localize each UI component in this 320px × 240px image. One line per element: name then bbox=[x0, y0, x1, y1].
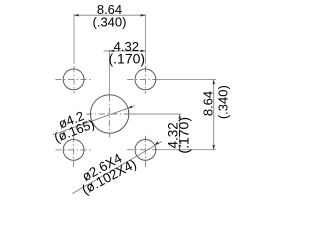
hole top-left circle bbox=[63, 69, 84, 90]
hole bottom-right circle bbox=[135, 140, 156, 161]
hole bottom-left circle bbox=[63, 140, 84, 161]
wire: top-left circle centerline horizontal bbox=[55, 78, 91, 80]
dimension line 4.32 right vertical bbox=[179, 114, 181, 150]
svg-text:(.340): (.340) bbox=[216, 85, 231, 119]
arrow 4.32 right bottom bbox=[178, 145, 181, 150]
svg-text:8.64: 8.64 bbox=[201, 91, 216, 116]
wire: bottom-right circle centerlines, horizontal extended to right dims bbox=[144, 136, 146, 170]
arrow leader big circle bbox=[128, 106, 133, 109]
wire: top-right circle centerline horizontal extended to right dim bbox=[127, 78, 157, 80]
wire: big circle centerline vertical (extension of 4.32 dim) bbox=[108, 50, 110, 95]
arrow 4.32 top left bbox=[109, 50, 114, 53]
svg-text:(.170): (.170) bbox=[176, 117, 192, 154]
hole top-right circle bbox=[135, 69, 156, 90]
arrow 8.64 right top bbox=[212, 79, 215, 84]
leader line for big circle dia bbox=[53, 106, 135, 135]
leader line for small holes dia bbox=[72, 141, 162, 193]
wire: bottom-left circle centerlines bbox=[73, 136, 75, 170]
svg-text:(.340): (.340) bbox=[93, 14, 127, 29]
arrow 4.32 top right bbox=[141, 50, 146, 53]
arrow leader small circle bbox=[154, 141, 158, 144]
arrow 4.32 right top bbox=[178, 114, 181, 119]
wire: top-left circle centerline vertical (extension of 8.64 dim) bbox=[73, 14, 75, 64]
wire: top-right circle centerline vertical (shared extension) bbox=[144, 14, 146, 64]
dimension line 4.32 top bbox=[104, 50, 146, 52]
arrow 8.64 top right bbox=[141, 14, 146, 17]
svg-text:(.170): (.170) bbox=[109, 50, 146, 66]
dimension line 8.64 right vertical bbox=[213, 79, 215, 149]
center big circle bbox=[90, 95, 128, 133]
wire: big circle centerline horizontal extended right to inner vertical dim bbox=[86, 113, 128, 115]
arrow 8.64 top left bbox=[74, 14, 79, 17]
dimension line 8.64 top bbox=[74, 14, 145, 16]
arrow 8.64 right bottom bbox=[212, 145, 215, 150]
